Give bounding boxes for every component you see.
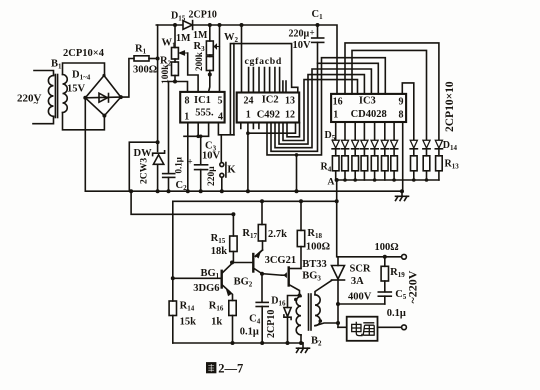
svg-text:8: 8 [399, 109, 404, 120]
fan box wire left [338, 326, 347, 328]
resistor R14 15k [169, 278, 176, 343]
capacitor C4 0.1u [256, 302, 268, 343]
svg-text:+: + [188, 157, 193, 167]
wire W2 wiper rail [219, 25, 221, 92]
diode D12 [410, 140, 417, 156]
terminal upper [402, 254, 407, 259]
svg-text:9: 9 [399, 96, 404, 107]
svg-text:cgfacbd: cgfacbd [245, 56, 283, 67]
svg-text:~220V: ~220V [406, 270, 420, 303]
wire BG1 collector to BG2 base [232, 262, 253, 264]
ground rail of top section [85, 190, 402, 192]
DW label frame wire [129, 142, 157, 191]
svg-text:8: 8 [185, 96, 190, 107]
IC2 pin24 supply wire [241, 25, 243, 93]
svg-text:1: 1 [246, 110, 251, 121]
left vertical wire of bottom section [172, 201, 174, 278]
diode D10 [381, 140, 388, 156]
IC1 pin4 wire [218, 123, 234, 135]
resistor R1 300 ohm [134, 56, 149, 61]
svg-text:10V: 10V [202, 150, 221, 161]
resistor R11 [411, 156, 418, 180]
IC1 555 box [180, 92, 224, 123]
IC1 pin wire to ground [187, 123, 189, 192]
rail1 of bottom section [173, 200, 337, 202]
node A drop wire to SCR rail [336, 180, 338, 257]
svg-text:18k: 18k [211, 246, 228, 257]
wire R1 to left rail [149, 58, 158, 60]
wire W1 wiper to IC1 [188, 53, 198, 92]
svg-text:1: 1 [333, 109, 338, 120]
bridge rectifier D1-4 [85, 76, 121, 116]
transformer B1 [33, 63, 105, 130]
resistor R8 [371, 156, 378, 180]
nest ground wire [296, 155, 298, 191]
resistor R15 18k [230, 214, 237, 262]
svg-text:~: ~ [34, 98, 39, 108]
IC1 pin wires to C3 node [184, 123, 209, 137]
terminal lower [402, 325, 407, 330]
svg-text:IC1: IC1 [194, 95, 211, 106]
wire bridge positive to R1 [121, 59, 134, 98]
IC3 pin8 ground wire [402, 122, 404, 191]
svg-text:13: 13 [285, 95, 295, 106]
capacitor C1 220u 10V [312, 25, 324, 63]
svg-text:400V: 400V [348, 292, 372, 303]
main left rail wire [157, 25, 159, 191]
svg-text:+: + [310, 28, 315, 38]
ground symbol top right [396, 191, 409, 200]
resistor R2 100k [172, 59, 179, 82]
svg-text:DW: DW [134, 148, 153, 159]
resistor R13 [436, 156, 443, 180]
svg-text:IC3: IC3 [359, 96, 376, 107]
diode D13 [423, 140, 430, 156]
switch K [220, 135, 226, 191]
svg-text:15k: 15k [180, 317, 197, 328]
svg-text:220μ: 220μ [207, 166, 217, 186]
resistor R4 [332, 156, 339, 180]
resistor R12 [423, 156, 430, 180]
svg-text:1M: 1M [176, 33, 191, 44]
snubber lower wire [338, 303, 385, 305]
svg-text:BT33: BT33 [302, 259, 327, 270]
svg-text:C492: C492 [257, 110, 280, 121]
svg-text:100Ω: 100Ω [375, 242, 399, 253]
resistor R3 200k [206, 55, 213, 92]
svg-text:3CG21: 3CG21 [265, 255, 297, 266]
svg-text:2.7k: 2.7k [268, 229, 287, 240]
wire IC3 to D13 column [352, 50, 427, 140]
svg-text:2—7: 2—7 [218, 362, 243, 376]
diode D9 [371, 140, 378, 156]
svg-text:2CP10: 2CP10 [266, 310, 277, 338]
svg-text:10V: 10V [293, 40, 312, 51]
pulse transformer B2 [296, 294, 320, 343]
potentiometer W1 1M [172, 25, 188, 59]
zener diode DW 2CW3 [153, 151, 165, 165]
wire nest between IC2 and IC3 [248, 58, 385, 155]
capacitor C5 [378, 292, 391, 304]
IC3 CD4028 box [331, 94, 406, 122]
svg-text:2CW3: 2CW3 [139, 158, 150, 184]
fan box wire right to terminal [378, 326, 402, 328]
svg-text:16: 16 [333, 96, 343, 107]
wire IC3 to D14 column [345, 43, 439, 140]
display frame wire around cgfacbd [230, 44, 297, 134]
transistor BG2 3CG21 [253, 250, 262, 274]
svg-text:200k: 200k [194, 51, 204, 71]
resistor R10 [391, 156, 398, 180]
diode D15 2CP10 [183, 21, 193, 30]
resistor R18 100 ohm [297, 201, 304, 268]
IC2 short bottom stubs [241, 123, 259, 129]
rail2 from ground rail [131, 191, 233, 214]
diode D6 [341, 140, 348, 156]
potentiometer W2 1M [206, 25, 219, 55]
7-segment stub wires under cgfacbd [249, 68, 286, 93]
svg-text:24: 24 [244, 95, 254, 106]
wire B2 secondary top to SCR gate [315, 281, 332, 295]
fan box 电扇 [347, 317, 378, 341]
ground symbol bottom [297, 343, 310, 352]
svg-text:SCR: SCR [350, 264, 371, 275]
svg-text:100Ω: 100Ω [306, 242, 330, 253]
svg-text:3A: 3A [351, 276, 364, 287]
SCR anode wire and terminal [338, 256, 401, 258]
bottom rail of bottom section [173, 342, 303, 344]
svg-text:CD4028: CD4028 [351, 109, 387, 120]
svg-text:0.1μ: 0.1μ [240, 327, 259, 338]
capacitor C3 220u 10V [195, 136, 208, 191]
fan text dian shan drawn strokes [352, 322, 375, 336]
caption figure 2-7 [207, 363, 216, 373]
resistor R5 [342, 156, 349, 180]
wire B2 secondary bottom to SCR cathode [315, 323, 338, 326]
UJT BG3 BT33 [282, 268, 302, 296]
resistor R19 [381, 257, 388, 292]
svg-text:5: 5 [218, 96, 223, 107]
svg-text:100k: 100k [161, 64, 171, 84]
svg-text:220μ: 220μ [289, 29, 310, 40]
resistor R9 [382, 156, 389, 180]
svg-text:1M: 1M [193, 30, 208, 41]
svg-text:IC2: IC2 [262, 95, 279, 106]
top supply wire [156, 24, 183, 26]
svg-text:0.1μ: 0.1μ [387, 308, 406, 319]
svg-text:K: K [227, 164, 236, 175]
svg-text:2CP10×4: 2CP10×4 [63, 48, 105, 59]
svg-text:4: 4 [218, 112, 223, 123]
svg-text:555.: 555. [195, 108, 214, 119]
wire bridge negative to ground rail [84, 98, 86, 191]
wire IC3 pin9 to D12 column [402, 83, 414, 140]
diode D11 [391, 140, 398, 156]
svg-text:2CP10×10: 2CP10×10 [444, 81, 456, 132]
IC2 C492 box [237, 93, 300, 123]
svg-text:A: A [328, 178, 335, 188]
resistor R17 2.7k [258, 201, 265, 250]
diode D8 [361, 140, 368, 156]
svg-text:300Ω: 300Ω [133, 64, 157, 75]
zener diode D16 2CP10 [284, 296, 300, 344]
diode D7 [352, 140, 359, 156]
capacitor C2 0.1u [163, 82, 175, 192]
resistor R16 1k [229, 301, 236, 344]
SCR [332, 257, 345, 328]
svg-text:1k: 1k [211, 317, 222, 328]
diode D14 [435, 140, 442, 156]
node wire R2 bottom to IC1 pin and C2 [169, 82, 188, 92]
transistor BG1 3DG6 [173, 264, 233, 301]
svg-text:15V: 15V [67, 84, 86, 95]
svg-text:2CP10: 2CP10 [189, 10, 217, 21]
IC2 ground pin wire [247, 123, 249, 192]
diode D5 [332, 140, 339, 156]
resistor row bottom rail [336, 179, 439, 181]
svg-text:1: 1 [184, 112, 189, 123]
svg-text:0.1μ: 0.1μ [174, 157, 184, 173]
IC3 bottom pin wires [336, 122, 394, 140]
resistor R6 [352, 156, 359, 180]
wire BG2 collector node [262, 274, 282, 303]
svg-text:12: 12 [285, 109, 295, 120]
resistor R7 [361, 156, 368, 180]
svg-text:3DG6: 3DG6 [193, 283, 219, 294]
